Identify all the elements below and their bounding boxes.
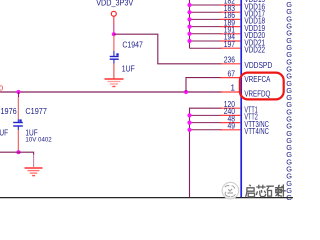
node row VDD20 <box>187 32 191 36</box>
svg-text:VDD_3P3V: VDD_3P3V <box>96 0 134 8</box>
node row VTT3 <box>187 121 191 125</box>
bus VDD vertical <box>189 0 191 48</box>
watermark text 启芯硬件 <box>246 184 286 196</box>
node row VDD19 <box>187 25 191 29</box>
wire pin row VDD21 <box>190 40 223 42</box>
wire pin row VTT3 <box>190 122 223 124</box>
wire ground pin <box>33 155 35 168</box>
svg-text:VREFCA: VREFCA <box>244 75 271 84</box>
capacitor C1976 labels (symbol off-screen) <box>0 107 17 138</box>
wire pin row VDD17 <box>190 11 223 13</box>
node row VDD17 <box>187 10 191 14</box>
wire C1947 to ground <box>113 64 115 79</box>
glyph 硬 <box>266 185 283 196</box>
svg-text:1: 1 <box>231 84 236 93</box>
pin 67 <box>221 77 241 79</box>
pin 240 <box>221 114 241 116</box>
wire pin row VTT2 <box>190 114 223 116</box>
pin 197 <box>221 47 241 49</box>
watermark logo circle <box>222 182 239 199</box>
node row VTT4 <box>187 128 191 132</box>
glyph 件 <box>278 184 286 196</box>
pin 194 <box>221 40 241 42</box>
capacitor C1947 <box>110 35 144 74</box>
pin 186 <box>221 18 241 20</box>
node row VDD18 <box>187 17 191 21</box>
wire VDD_3P3V to VDDSPD pin <box>114 34 222 64</box>
svg-text:C1947: C1947 <box>122 41 143 50</box>
pin 48 <box>221 122 241 124</box>
wire pin row VDD16 <box>190 4 223 6</box>
svg-text:67: 67 <box>228 69 236 78</box>
glyph 启 <box>246 185 255 197</box>
node C1977 top junction <box>16 90 20 94</box>
svg-text:1UF: 1UF <box>122 65 135 74</box>
pin 182 <box>221 4 241 6</box>
pin 1 <box>221 91 241 93</box>
svg-text:VREFDQ: VREFDQ <box>244 89 270 98</box>
annotation highlight VREF pins <box>240 73 284 100</box>
pin 189 <box>221 26 241 28</box>
svg-text:VTT4/NC: VTT4/NC <box>244 127 269 136</box>
svg-text:0: 0 <box>0 83 3 92</box>
wire pin row VTT4 <box>190 129 223 131</box>
wire VREFDQ net (long horizontal) <box>0 91 222 93</box>
node C1977 bottom junction <box>16 150 20 154</box>
svg-text:236: 236 <box>224 56 236 65</box>
wire VREFCA corner <box>186 78 222 92</box>
svg-text:49: 49 <box>228 122 236 131</box>
pin 191 <box>221 33 241 35</box>
pin 49 <box>221 129 241 131</box>
node row VDD16 <box>187 3 191 7</box>
pin names column 2 (GND, cut off) <box>286 0 292 202</box>
glyph 芯 <box>256 185 266 197</box>
pin 236 <box>221 63 241 65</box>
wire pin row VDD22 (corner) <box>190 47 223 49</box>
svg-text:1UF: 1UF <box>0 128 8 137</box>
pin stubs (red) <box>221 5 241 130</box>
svg-text:197: 197 <box>224 40 236 49</box>
node row VDD21 <box>187 39 191 43</box>
node VREFCA vertical junction <box>184 90 188 94</box>
svg-text:C1977: C1977 <box>25 107 47 116</box>
bus VTT vertical <box>190 108 223 197</box>
node VDD_3P3V junction <box>112 32 116 36</box>
pin 183 <box>221 11 241 13</box>
wire pin row VDD20 <box>190 33 223 35</box>
node row VTT2 <box>187 113 191 117</box>
wire pin row VDD18 <box>190 18 223 20</box>
pin 120 <box>221 107 241 109</box>
wire pin row VDD19 <box>190 26 223 28</box>
wire ground net bottom-left <box>0 152 34 155</box>
svg-text:VDDSPD: VDDSPD <box>244 61 272 70</box>
chip U1 body edge <box>240 0 242 197</box>
ground under C1947 <box>105 79 124 87</box>
pin names <box>244 0 272 136</box>
svg-text:C1976: C1976 <box>0 107 17 116</box>
schematic page border <box>0 197 293 199</box>
pin numbers <box>224 0 236 131</box>
power symbol VDD_3P3V <box>96 0 134 34</box>
ground bottom-left <box>25 168 43 176</box>
svg-text:10V 0402: 10V 0402 <box>25 137 52 144</box>
svg-text:VDD22: VDD22 <box>244 46 265 55</box>
capacitor C1977 <box>13 92 52 151</box>
